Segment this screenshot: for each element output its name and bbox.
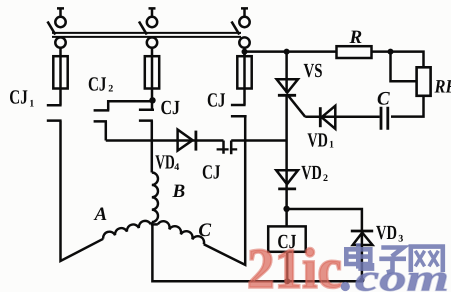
svg-text:2: 2	[323, 173, 328, 184]
svg-text:C: C	[198, 220, 211, 241]
svg-text:4: 4	[174, 162, 179, 173]
svg-text:VD: VD	[307, 130, 328, 152]
svg-text:A: A	[94, 204, 108, 225]
svg-text:CJ: CJ	[9, 87, 28, 109]
svg-text:CJ: CJ	[88, 73, 107, 95]
svg-text:VS: VS	[304, 60, 323, 82]
svg-text:VD: VD	[376, 222, 397, 244]
svg-text:VD: VD	[155, 152, 175, 174]
svg-text:R: R	[349, 27, 363, 48]
svg-text:21ic: 21ic	[247, 238, 342, 292]
svg-text:3: 3	[398, 234, 403, 245]
svg-text:RF: RF	[434, 76, 451, 97]
svg-text:B: B	[172, 181, 186, 202]
svg-text:1: 1	[29, 99, 34, 110]
svg-text:CJ: CJ	[202, 162, 221, 184]
svg-text:CJ: CJ	[207, 89, 226, 111]
svg-text:CJ: CJ	[161, 97, 181, 119]
svg-text:C: C	[377, 89, 390, 110]
svg-text:VD: VD	[301, 162, 322, 184]
svg-text:2: 2	[108, 84, 113, 95]
svg-text:1: 1	[329, 140, 334, 151]
